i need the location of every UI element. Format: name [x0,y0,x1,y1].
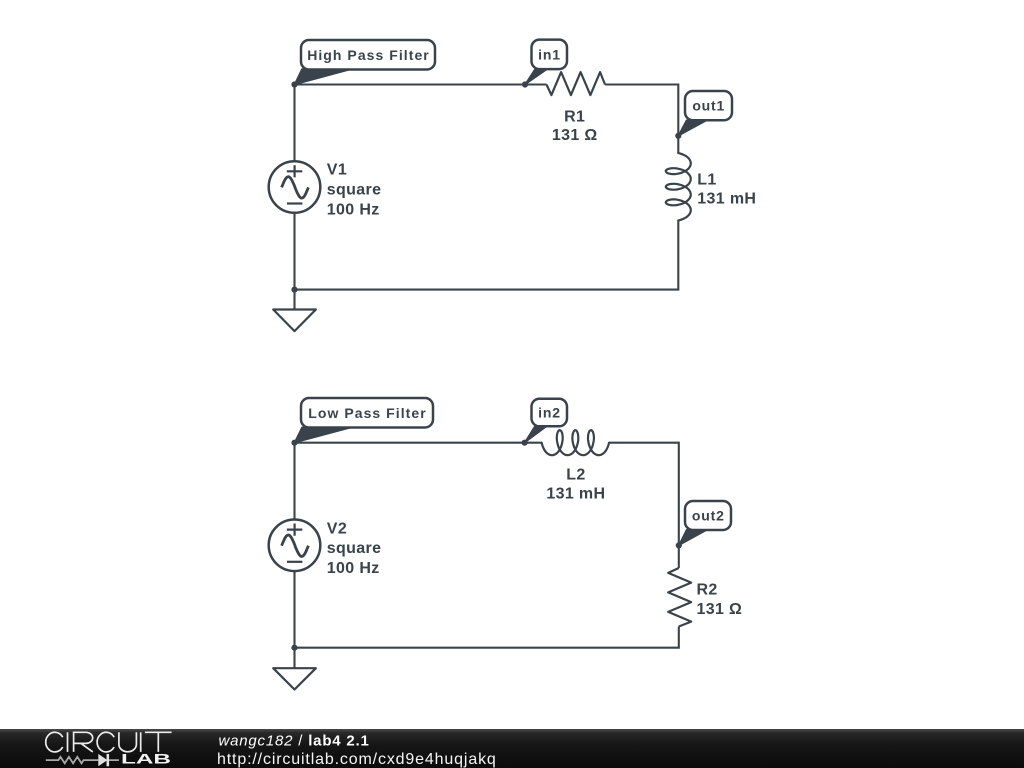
label L1 name and value [697,171,756,207]
svg-text:out1: out1 [692,98,725,114]
resistor R2 [668,568,691,627]
svg-text:out2: out2 [692,508,725,524]
svg-text:R2: R2 [697,582,718,599]
svg-text:V2: V2 [327,521,347,538]
wire: L2 right lead to corner down to node out2 [609,443,679,546]
flag in2 [525,399,567,443]
svg-text:100 Hz: 100 Hz [327,560,380,577]
junction dot node out2 [676,542,682,548]
wire: node out1 to inductor L1 top lead [677,136,679,153]
wire: V1 negative terminal down to ground node [293,213,295,290]
junction dot node in2 [522,440,528,446]
inductor L2 [542,430,609,455]
svg-text:in2: in2 [538,405,561,421]
resistor R1 [547,72,606,95]
wire: L1 bottom lead to bottom rail and back to ground node [295,220,679,289]
label V2 name and value [327,521,382,578]
svg-text:square: square [327,182,382,199]
footer bar [0,729,1024,768]
wire: bottom circuit top rail from node A2 to inductor L2 left lead [295,442,542,444]
flag High Pass Filter [295,40,436,85]
CircuitLab logo schematic squiggle (resistor and diode) [46,754,119,766]
label R2 name and value [697,582,743,619]
voltage source V2 [269,520,321,572]
svg-text:High Pass Filter: High Pass Filter [307,47,430,63]
flag out2 [679,501,731,545]
junction dot node A2 [291,440,297,446]
junction dot node A1 [291,81,297,87]
inductor L1 [666,153,691,220]
label V1 name and value [327,161,382,218]
svg-text:Low Pass Filter: Low Pass Filter [308,405,426,421]
junction dot ground node of top circuit [291,287,297,293]
svg-text:in1: in1 [538,47,561,63]
wire: node A1 down to V1 positive terminal [293,85,295,162]
ground symbol (top circuit) [273,290,316,332]
junction dot node out1 [675,133,681,139]
svg-text:http://circuitlab.com/cxd9e4hu: http://circuitlab.com/cxd9e4huqjakq [217,751,497,768]
wire: V2 negative terminal down to ground node [293,571,295,648]
svg-text:131 Ω: 131 Ω [697,601,743,618]
svg-text:V1: V1 [327,161,347,178]
svg-text:wangc182 / lab4 2.1: wangc182 / lab4 2.1 [219,733,370,750]
ground symbol (bottom circuit) [273,648,316,690]
voltage source V1 [269,161,321,213]
wire: node out2 to resistor R2 top lead [678,545,680,568]
svg-text:L1: L1 [697,171,716,188]
svg-text:LAB: LAB [121,752,171,767]
flag in1 [525,40,567,85]
wire: R2 bottom lead to bottom rail and back to ground node [295,627,679,648]
svg-text:square: square [327,540,382,557]
junction dot node in1 [522,81,528,87]
svg-text:131 mH: 131 mH [697,191,756,208]
label R1 name and value [552,108,598,144]
svg-text:131 Ω: 131 Ω [552,127,598,144]
wire: R1 right lead to top-right corner down to node out1 [605,85,678,136]
svg-text:100 Hz: 100 Hz [327,202,380,219]
wire: node A2 down to V2 positive terminal [293,443,295,520]
flag Low Pass Filter [295,398,434,443]
svg-text:L2: L2 [566,466,585,483]
svg-text:131 mH: 131 mH [546,486,605,503]
junction dot ground node of bottom circuit [291,645,297,651]
CircuitLab logo wordmark CIRCUIT [46,732,172,752]
label L2 name and value [546,466,605,502]
wire: top rail from node A1 to resistor R1 left lead [295,83,547,85]
flag out1 [678,91,732,136]
svg-text:R1: R1 [564,108,585,125]
